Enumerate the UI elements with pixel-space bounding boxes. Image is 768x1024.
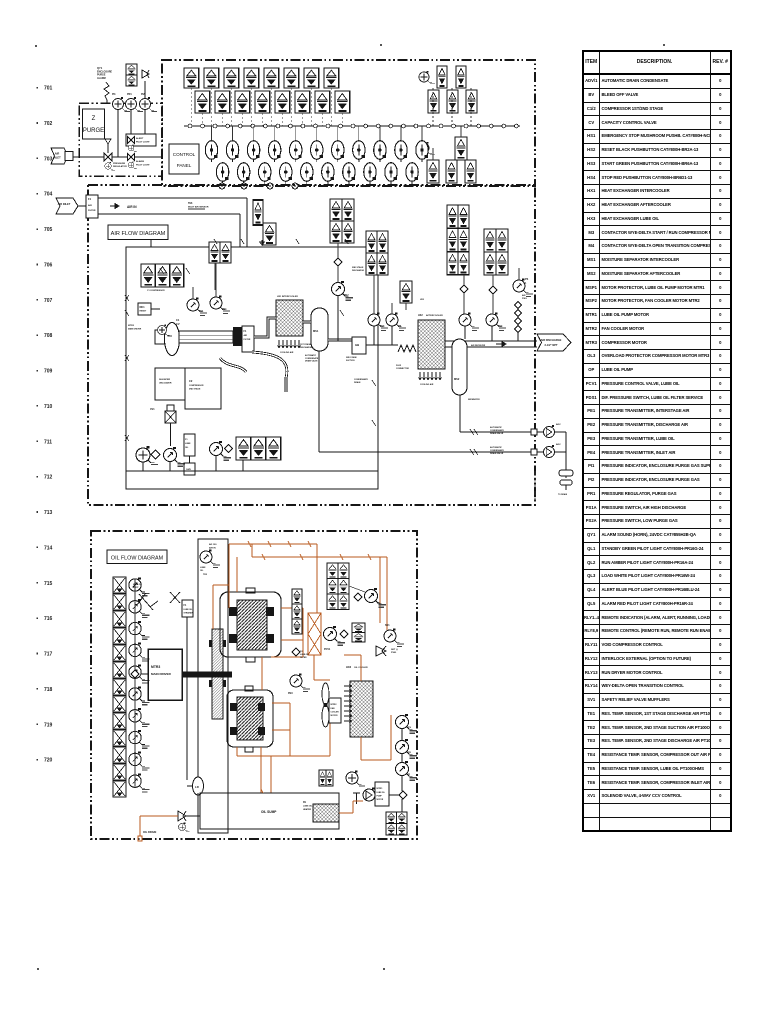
annunciator row A 7 bbox=[304, 68, 319, 88]
wire bbox=[464, 326, 466, 339]
annunciator row A 4 bbox=[244, 68, 259, 88]
svg-text:PSIG: PSIG bbox=[522, 298, 527, 300]
temperature sensor TE5 bbox=[200, 550, 220, 568]
wire pilot drop bbox=[316, 126, 318, 141]
oil return bbox=[270, 756, 272, 793]
oil flow diagram title box bbox=[107, 550, 167, 564]
svg-text:HEATER: HEATER bbox=[303, 808, 312, 811]
oil line bbox=[302, 608, 304, 657]
C2 top nozzle bbox=[245, 686, 253, 691]
svg-text:FILTER: FILTER bbox=[244, 339, 251, 341]
svg-text:TE4: TE4 bbox=[498, 325, 503, 328]
machine bus bbox=[126, 470, 378, 472]
oil strainer F1 box bbox=[182, 600, 193, 617]
oil line bbox=[281, 639, 303, 641]
pressure gauge oil b bbox=[396, 739, 418, 759]
check valve bbox=[354, 593, 362, 601]
oil line bbox=[352, 801, 354, 813]
wire bbox=[401, 799, 403, 812]
pilot light bbox=[237, 163, 249, 184]
svg-text:AIR INLET: AIR INLET bbox=[58, 202, 71, 206]
annunciator row B 2 bbox=[215, 91, 230, 113]
svg-text:AD 100: AD 100 bbox=[209, 543, 217, 546]
svg-text:CONTROL: CONTROL bbox=[173, 152, 196, 157]
lube pump gauge bbox=[136, 446, 158, 465]
bus node bbox=[364, 124, 368, 128]
corner tick bbox=[35, 45, 37, 47]
annunciator C1 a bbox=[141, 264, 155, 287]
pilot light bbox=[416, 141, 428, 162]
annunciator row A 6 bbox=[284, 68, 299, 88]
temperature sensor TE2 oil bbox=[365, 588, 387, 608]
annunciator cluster C2 bbox=[458, 205, 469, 228]
oil sensor block 2 bbox=[113, 594, 126, 610]
pipe interstage bbox=[254, 318, 276, 337]
oil line bbox=[261, 789, 263, 793]
oil line bbox=[272, 702, 290, 704]
bus node bbox=[502, 124, 506, 128]
annunciator row A 8 bbox=[324, 68, 339, 88]
cooling air arrows HX2 bbox=[418, 372, 421, 380]
oil drop bbox=[386, 557, 388, 630]
spacer bbox=[296, 676, 298, 678]
svg-text:HX2: HX2 bbox=[418, 314, 423, 317]
break marks left bbox=[125, 295, 129, 441]
svg-text:AIR IN: AIR IN bbox=[127, 205, 137, 209]
svg-text:LR: LR bbox=[195, 785, 199, 789]
svg-text:AIR RECEIVER: AIR RECEIVER bbox=[471, 344, 486, 347]
svg-text:MS2: MS2 bbox=[454, 377, 460, 381]
svg-text:XV1: XV1 bbox=[150, 408, 155, 411]
annunciator cluster A3 bbox=[330, 221, 342, 243]
svg-text:COOLER: COOLER bbox=[331, 712, 340, 714]
annunciator oil B2 bbox=[292, 604, 302, 619]
annunciator row B 5 bbox=[275, 91, 290, 113]
annunciator cluster B2 bbox=[377, 231, 388, 253]
annunciator cluster D4 bbox=[496, 252, 508, 275]
check valve bbox=[489, 286, 497, 294]
oil line bbox=[329, 700, 331, 756]
pressure gauge oil a bbox=[396, 714, 418, 734]
pilot light bbox=[205, 141, 217, 162]
check valve bbox=[399, 791, 407, 799]
oil line C1 to C2 bbox=[261, 657, 263, 690]
svg-text:705: 705 bbox=[44, 227, 53, 233]
oil drain valve bbox=[178, 811, 186, 821]
oil drop to C1 bbox=[228, 544, 230, 592]
oil sensor block 4 bbox=[113, 628, 126, 644]
oil drop bbox=[236, 557, 238, 592]
wire bbox=[170, 423, 172, 434]
svg-text:ALERT: ALERT bbox=[136, 137, 144, 140]
annunciator cluster B4 bbox=[377, 253, 388, 275]
svg-text:LUBE OIL: LUBE OIL bbox=[303, 805, 313, 807]
svg-text:AFTERCOOLER: AFTERCOOLER bbox=[426, 314, 443, 317]
oil line bbox=[314, 679, 330, 681]
svg-text:DISCHARGE: DISCHARGE bbox=[352, 269, 365, 272]
pressure switch PS1A bbox=[386, 313, 406, 331]
annunciator oil B1 bbox=[292, 589, 302, 604]
bus node bbox=[402, 124, 406, 128]
oil gauge 1 bbox=[129, 577, 150, 596]
break marks bbox=[470, 429, 478, 455]
svg-text:701: 701 bbox=[44, 86, 53, 92]
riser diamond bbox=[131, 670, 139, 678]
grid line number 710 bbox=[37, 405, 39, 407]
svg-text:UNLOADER: UNLOADER bbox=[159, 381, 172, 384]
wire to MTR3 bbox=[141, 673, 148, 675]
MS1 drain bbox=[318, 351, 320, 452]
annunciator PE4 a bbox=[263, 223, 276, 245]
QL4 light bbox=[128, 144, 137, 152]
bus node bbox=[414, 124, 418, 128]
annunciator oil D1 bbox=[386, 812, 397, 824]
oil sensor block 8 bbox=[113, 696, 126, 712]
corner tick bbox=[383, 968, 385, 970]
compressor package outline bbox=[126, 247, 378, 489]
annunciator cluster B3 bbox=[366, 253, 377, 275]
wire annunciator drop bbox=[330, 88, 332, 126]
annunciator oil C1 bbox=[352, 623, 365, 633]
wire vent to circles bbox=[144, 81, 146, 99]
motor shaft bbox=[182, 672, 232, 678]
wire bbox=[242, 460, 244, 471]
svg-text:PI: PI bbox=[408, 774, 410, 776]
compressor C1 cylinder bbox=[179, 331, 233, 343]
lube oil pump OP bbox=[363, 788, 375, 802]
inlet duct top bbox=[98, 197, 247, 199]
wire bbox=[349, 586, 365, 592]
annunciator bottom a bbox=[236, 437, 251, 460]
wire pilot drop bbox=[379, 126, 381, 141]
wire bbox=[460, 126, 462, 137]
oil to HX3 bbox=[360, 655, 362, 681]
pressure gauge oil c bbox=[396, 761, 418, 781]
bus node bbox=[314, 124, 318, 128]
oil gauge 10 bbox=[129, 773, 150, 792]
check valve bbox=[334, 258, 342, 266]
pipe MS1 to C2 suction bbox=[328, 339, 352, 342]
svg-text:SEPARATOR: SEPARATOR bbox=[468, 398, 480, 401]
fan motor MTR2 box bbox=[329, 698, 341, 723]
grid line number 704 bbox=[37, 193, 39, 195]
inlet duct right outer bbox=[246, 198, 248, 247]
svg-text:MAIN OIL: MAIN OIL bbox=[133, 583, 143, 586]
oil sensor block 6 bbox=[113, 662, 126, 678]
svg-text:ALARM: ALARM bbox=[136, 160, 144, 163]
oil return header bbox=[237, 755, 330, 757]
annunciator bottom c bbox=[266, 437, 281, 460]
bus node bbox=[427, 124, 431, 128]
oil sensor block 1 bbox=[113, 577, 126, 593]
svg-text:LUBE OIL: LUBE OIL bbox=[300, 654, 310, 656]
svg-text:GB: GB bbox=[355, 343, 359, 347]
svg-text:C1: C1 bbox=[176, 318, 180, 322]
check valve bbox=[340, 630, 348, 638]
oil return bbox=[260, 747, 262, 793]
pilot light bbox=[395, 141, 407, 162]
cylinder C1 outline bbox=[220, 592, 281, 657]
guide tabs bbox=[209, 640, 212, 647]
svg-text:TE6: TE6 bbox=[188, 202, 193, 205]
wire bbox=[405, 303, 407, 310]
bus node bbox=[213, 124, 217, 128]
grid line number 708 bbox=[37, 334, 39, 336]
svg-text:COOLING AIR: COOLING AIR bbox=[420, 383, 434, 386]
svg-text:MTR3: MTR3 bbox=[128, 325, 135, 327]
oil gauge 3 bbox=[129, 621, 150, 640]
svg-text:DRAIN VALVE: DRAIN VALVE bbox=[305, 360, 318, 363]
svg-text:702: 702 bbox=[44, 121, 53, 127]
oil sensor block 5 bbox=[113, 645, 126, 661]
svg-text:PURGE: PURGE bbox=[83, 128, 104, 134]
wire bbox=[534, 471, 536, 503]
bus node bbox=[326, 124, 330, 128]
svg-text:DISCHARGE: DISCHARGE bbox=[300, 346, 313, 349]
panel gauge b bbox=[419, 142, 435, 155]
annunciator right C1 bbox=[455, 137, 467, 160]
svg-text:CONNECTOR: CONNECTOR bbox=[396, 368, 409, 370]
svg-text:MS1: MS1 bbox=[313, 329, 319, 333]
alarm square PS2A b bbox=[126, 75, 137, 86]
check valve bbox=[151, 450, 160, 459]
grid line number 715 bbox=[37, 582, 39, 584]
panel-to-field connector bbox=[219, 183, 225, 189]
svg-text:SV1: SV1 bbox=[385, 624, 390, 627]
motor end box bbox=[155, 330, 165, 344]
gauge board GB bbox=[352, 337, 366, 354]
oil line bbox=[313, 655, 315, 680]
suction line bbox=[186, 617, 188, 780]
oil drain line bbox=[139, 816, 141, 836]
annunciator TE6 bbox=[253, 200, 263, 225]
wire bbox=[142, 462, 144, 471]
none bbox=[199, 801, 201, 829]
svg-text:COMPRESSOR: COMPRESSOR bbox=[189, 385, 204, 387]
drain valve ADV2 bbox=[543, 445, 554, 457]
wire bbox=[432, 148, 434, 160]
strainer X bbox=[170, 592, 180, 603]
annunciator row B 4 bbox=[255, 91, 270, 113]
annunciator cluster C3 bbox=[447, 228, 458, 251]
annunciator right D3 bbox=[465, 160, 476, 183]
pipe sweep C1 to C2 bbox=[220, 358, 246, 372]
wire pilot drop bbox=[232, 126, 234, 141]
oil line bbox=[361, 759, 391, 761]
annunciator row A 1 bbox=[184, 68, 199, 88]
wire annunciator drop bbox=[321, 113, 323, 126]
drain node b bbox=[531, 449, 537, 455]
heat exchanger HX3 bbox=[350, 681, 373, 737]
pilot light bbox=[301, 163, 313, 184]
pilot light bbox=[259, 163, 271, 184]
coupling bbox=[233, 327, 242, 346]
annunciator oil A2 bbox=[338, 563, 349, 579]
svg-text:719: 719 bbox=[44, 722, 53, 728]
wire bbox=[555, 451, 567, 453]
wire pilot drop bbox=[253, 126, 255, 141]
compressor C1 crank ellipse bbox=[165, 323, 180, 356]
oil sensor block 13 bbox=[113, 781, 126, 797]
svg-text:CONDENSATE: CONDENSATE bbox=[490, 449, 505, 452]
bus node bbox=[263, 124, 267, 128]
oil line bbox=[281, 607, 303, 609]
annunciator oil E1 bbox=[319, 770, 326, 786]
grid line number 716 bbox=[37, 617, 39, 619]
grid line number 709 bbox=[37, 370, 39, 372]
bus node bbox=[376, 124, 380, 128]
svg-text:F1: F1 bbox=[185, 439, 188, 441]
annunciator cluster D3 bbox=[484, 252, 496, 275]
horn QY1 symbol bbox=[104, 82, 109, 100]
svg-text:710: 710 bbox=[44, 404, 53, 410]
svg-text:MTR3: MTR3 bbox=[151, 665, 160, 669]
bus node bbox=[389, 124, 393, 128]
grid line number 717 bbox=[37, 653, 39, 655]
pressure regulator PR1 bbox=[104, 153, 112, 161]
flow arrow discharge bbox=[496, 342, 506, 347]
oil header 2 bbox=[252, 556, 387, 558]
annunciator oil A5 bbox=[327, 594, 338, 610]
wire bbox=[337, 266, 339, 283]
annunciator right D2 bbox=[446, 160, 457, 183]
grid line number 702 bbox=[37, 122, 39, 124]
svg-text:MOTOR: MOTOR bbox=[377, 799, 384, 801]
annunciator oil A1 bbox=[327, 563, 338, 579]
wire bbox=[389, 794, 399, 796]
thermowell bbox=[353, 793, 360, 804]
bus node bbox=[452, 124, 456, 128]
oil line bbox=[236, 747, 238, 756]
immersion heater element bbox=[313, 804, 339, 822]
svg-text:C1 COMPRESSOR: C1 COMPRESSOR bbox=[147, 290, 165, 292]
filter F1 oil box bbox=[184, 434, 195, 456]
svg-text:HX3: HX3 bbox=[346, 665, 352, 669]
muffler b bbox=[560, 480, 572, 485]
safety relief valve SV1 bbox=[376, 646, 386, 656]
wire bbox=[150, 240, 152, 247]
svg-text:717: 717 bbox=[44, 652, 53, 658]
wire bbox=[170, 434, 172, 446]
svg-text:718: 718 bbox=[44, 687, 53, 693]
control panel boundary bbox=[162, 60, 535, 186]
wire bbox=[401, 754, 403, 763]
annunciator oil D4 bbox=[397, 824, 408, 836]
parts list table bbox=[582, 50, 732, 832]
off-page flag AIR DISCHARGE bbox=[537, 334, 571, 351]
oil gauge 9 bbox=[129, 752, 150, 771]
wire annunciator drop bbox=[250, 88, 252, 126]
purge inlet connector bbox=[65, 152, 73, 161]
svg-text:OIL: OIL bbox=[200, 570, 204, 572]
annunciator row B 7 bbox=[315, 91, 330, 113]
wire bbox=[391, 303, 393, 314]
cylinder C2 bore bbox=[237, 697, 263, 740]
svg-text:MAIN DRIVER: MAIN DRIVER bbox=[151, 672, 172, 676]
oil flow diagram boundary bbox=[91, 531, 417, 839]
seal diamond bbox=[514, 325, 521, 332]
pilot light bbox=[353, 141, 365, 162]
svg-text:STRAINER: STRAINER bbox=[184, 612, 194, 615]
svg-text:1ST STAGE: 1ST STAGE bbox=[300, 343, 312, 346]
svg-text:715: 715 bbox=[44, 581, 53, 587]
pressure regulator PR1 gauge bbox=[125, 97, 142, 112]
break marks pipes bbox=[125, 268, 376, 426]
oil drain line bbox=[140, 815, 178, 817]
pilot light bbox=[216, 163, 228, 184]
bus node bbox=[351, 124, 355, 128]
panel-to-field connector bbox=[267, 183, 273, 189]
compressor body b bbox=[185, 368, 221, 409]
svg-text:709: 709 bbox=[44, 369, 53, 375]
cooling air arrows HX1 bbox=[277, 340, 280, 348]
annunciator right D1 bbox=[427, 160, 439, 183]
PR1 gauge bbox=[105, 162, 115, 171]
wire PE2 tap bbox=[337, 296, 339, 342]
seal diamond bbox=[514, 309, 521, 316]
alarm pilot valve QL5 bbox=[128, 154, 135, 161]
svg-text:AIR IN: AIR IN bbox=[209, 546, 216, 549]
piston rods C1 bbox=[229, 607, 237, 616]
oil line bbox=[213, 584, 229, 586]
svg-text:OIL FLOW DIAGRAM: OIL FLOW DIAGRAM bbox=[111, 556, 164, 562]
annunciator right B3 bbox=[466, 90, 477, 113]
svg-text:706: 706 bbox=[44, 263, 53, 269]
wire bbox=[391, 326, 393, 345]
wire bbox=[492, 275, 494, 286]
off-page flag AIR INLET (air) bbox=[56, 198, 78, 214]
svg-text:2ND STAGE: 2ND STAGE bbox=[346, 356, 357, 359]
gauge above sump bbox=[346, 771, 365, 787]
bus node bbox=[289, 124, 293, 128]
panel signal bus bbox=[184, 125, 520, 127]
oil filter F2 bbox=[308, 613, 321, 655]
oil sump tank bbox=[200, 793, 339, 829]
grid line number 719 bbox=[37, 724, 39, 726]
wire bbox=[470, 88, 472, 126]
wire annunciator drop bbox=[261, 113, 263, 126]
svg-text:711: 711 bbox=[44, 439, 52, 445]
drain stack bbox=[565, 432, 567, 478]
svg-text:TE5: TE5 bbox=[203, 574, 208, 576]
wire annunciator drop bbox=[221, 113, 223, 126]
svg-text:COOLING AIR: COOLING AIR bbox=[280, 351, 294, 354]
wire bbox=[401, 776, 403, 792]
annunciator PS pair bbox=[400, 281, 412, 303]
annunciator cluster A1 bbox=[330, 199, 342, 221]
wire bbox=[197, 793, 199, 795]
svg-text:AIR FLOW DIAGRAM: AIR FLOW DIAGRAM bbox=[111, 231, 166, 237]
oil line bbox=[339, 812, 353, 814]
svg-text:Z: Z bbox=[92, 116, 96, 122]
svg-text:PANEL: PANEL bbox=[177, 163, 192, 168]
oil line bbox=[271, 656, 303, 658]
alert pilot valve QL4 bbox=[128, 137, 135, 144]
drain valve ADV1 bbox=[543, 425, 554, 437]
wire bbox=[432, 88, 434, 126]
pilot light bbox=[406, 163, 418, 184]
off-page flag AIR INLET (purge) bbox=[51, 148, 68, 164]
moisture separator MS1 bbox=[311, 308, 328, 351]
svg-text:SILENCER: SILENCER bbox=[159, 379, 170, 381]
grid line number 701 bbox=[37, 87, 39, 89]
grid line number 705 bbox=[37, 228, 39, 230]
svg-text:PE1: PE1 bbox=[222, 308, 227, 311]
svg-text:LUBE: LUBE bbox=[200, 567, 206, 569]
C2 bottom nozzle bbox=[245, 747, 253, 752]
annunciator row B 1 bbox=[195, 91, 210, 113]
svg-text:MC1: MC1 bbox=[140, 306, 146, 309]
